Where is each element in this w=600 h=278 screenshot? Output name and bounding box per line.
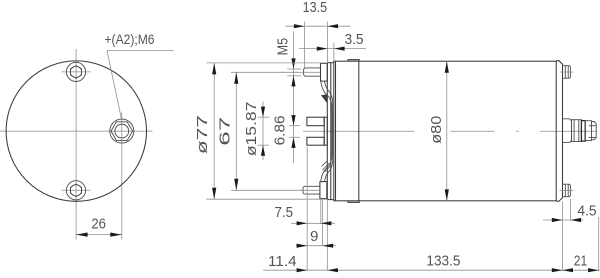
- boss bottom: [320, 182, 327, 199]
- bolt bottom tick: [62, 189, 91, 191]
- bolt top tick: [62, 71, 91, 73]
- svg-text:ø80: ø80: [428, 116, 445, 144]
- svg-text:9: 9: [310, 228, 318, 245]
- end plate: [556, 61, 562, 202]
- svg-text:6.86: 6.86: [272, 115, 289, 145]
- svg-text:M5: M5: [275, 38, 292, 56]
- dimension 26: [76, 234, 122, 236]
- bolt bottom: [66, 181, 85, 200]
- svg-text:3.5: 3.5: [344, 31, 363, 48]
- svg-text:67: 67: [217, 117, 234, 146]
- svg-text:11.4: 11.4: [268, 253, 297, 270]
- terminal centerline: [121, 113, 123, 240]
- coupling bar: [324, 117, 327, 145]
- leader A2: [107, 50, 174, 52]
- svg-text:ø77: ø77: [194, 115, 211, 154]
- dim 67: [217, 72, 321, 190]
- terminal nut: [572, 120, 582, 142]
- dim 6.86: [272, 115, 301, 148]
- dim ø15.87: [243, 102, 269, 161]
- collar band top cap: [348, 60, 359, 62]
- dim 11.4: [268, 253, 338, 272]
- svg-text:133.5: 133.5: [426, 252, 460, 269]
- casting fill top: [321, 94, 327, 103]
- terminal stub: [585, 121, 591, 141]
- dim 21: [562, 252, 598, 272]
- svg-text:21: 21: [574, 252, 588, 269]
- terminal boss: [563, 119, 572, 143]
- boss top: [321, 63, 328, 81]
- dim M5: [275, 31, 302, 163]
- ext lines bottom: [307, 147, 599, 271]
- dim 3.5: [299, 31, 366, 61]
- stud M5 top: [304, 68, 321, 76]
- dim 7.5: [275, 204, 335, 225]
- right stud top: [563, 66, 571, 79]
- motor body: [334, 61, 556, 201]
- svg-text:+(A2);M6: +(A2);M6: [105, 31, 155, 47]
- stud M5 bottom: [303, 186, 321, 194]
- hatch bottom: [322, 161, 332, 173]
- dim 4.5: [543, 203, 597, 223]
- casting outline verticals: [331, 107, 333, 156]
- dim ø77: [194, 63, 327, 199]
- bottom chain dim line: [263, 269, 600, 271]
- collar band bottom cap: [348, 201, 359, 203]
- dim 133.5: [426, 252, 562, 272]
- dim 13.5: [286, 0, 351, 68]
- terminal tip: [592, 122, 597, 140]
- terminal washer: [581, 121, 585, 142]
- horizontal centerline: [0, 130, 153, 132]
- svg-text:4.5: 4.5: [577, 203, 596, 220]
- svg-text:7.5: 7.5: [275, 204, 294, 221]
- casting curve top: [321, 81, 332, 107]
- casting curve bottom: [321, 156, 332, 182]
- mounting face plate: [327, 63, 334, 200]
- terminal thread lines: [589, 125, 597, 127]
- terminal M6: [110, 119, 134, 143]
- coupling prong top: [307, 117, 324, 126]
- section joint line: [358, 61, 360, 201]
- axis centerline: [303, 130, 597, 132]
- right stud top tick: [560, 71, 574, 73]
- right stud bottom: [563, 184, 571, 197]
- right stud bottom tick: [560, 189, 574, 191]
- svg-text:ø15.87: ø15.87: [243, 102, 260, 157]
- vertical centerline: [75, 49, 77, 240]
- flange circle ø77: [6, 61, 146, 201]
- dim 9: [296, 228, 336, 248]
- dim ø80: [427, 61, 449, 201]
- svg-text:13.5: 13.5: [303, 0, 328, 16]
- bolt top: [66, 62, 85, 81]
- body joint line: [335, 61, 337, 201]
- svg-text:26: 26: [91, 216, 106, 233]
- coupling prong bottom: [307, 137, 324, 145]
